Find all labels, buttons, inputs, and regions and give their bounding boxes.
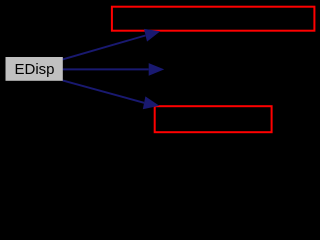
svg-text:EDisp: EDisp: [14, 61, 54, 78]
